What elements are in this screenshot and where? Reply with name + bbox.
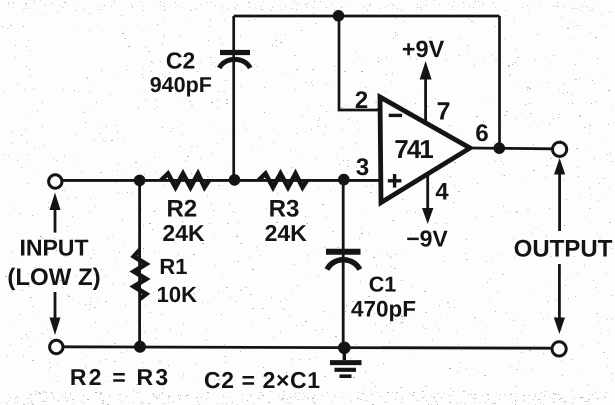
resistor R2 24K (161, 174, 209, 188)
terminal input bottom (50, 340, 63, 353)
terminal output top (553, 142, 567, 156)
resistor R3 24K (259, 174, 308, 188)
junction node: R3 C1 pin3 (338, 174, 350, 186)
wire feedback right vertical (498, 16, 501, 148)
label INPUT (21, 240, 88, 256)
terminal output bottom (552, 342, 566, 356)
capacitor C1 470pF (326, 252, 361, 270)
output top arrow (554, 158, 565, 231)
wire pin 2 branch (339, 16, 380, 110)
wire C1 branch vertical (342, 180, 345, 348)
label LOW Z (9, 268, 100, 290)
label R3 (270, 200, 298, 217)
pin 2 (356, 91, 368, 108)
label +9V (403, 41, 444, 58)
label R1 (161, 259, 187, 274)
label R2 (168, 200, 196, 217)
label 470pF (351, 301, 415, 321)
pin 6 (476, 124, 488, 141)
junction node: R2 R3 C2 (229, 174, 241, 186)
label C1 (370, 277, 396, 292)
junction node: feedback top (333, 10, 345, 22)
formula C2 = 2xC1 (205, 372, 320, 388)
label 24K of R2 (163, 225, 204, 241)
op-amp value 741 (395, 140, 433, 158)
input top arrow (50, 193, 61, 233)
junction node: bottom R1 (134, 341, 146, 353)
pin 3 (356, 158, 368, 175)
resistor R1 10K (134, 250, 146, 299)
label 10K (158, 287, 197, 303)
label OUTPUT (515, 240, 612, 257)
capacitor C2 940pF (219, 53, 250, 69)
wire C2 branch vertical (232, 16, 235, 180)
junction node: bottom C1 ground (338, 342, 351, 355)
terminal input top (49, 175, 62, 188)
wire bottom rail (63, 347, 553, 348)
pin 4 (436, 183, 449, 200)
wire top feedback horizontal (234, 15, 500, 18)
label 24K of R3 (265, 225, 306, 241)
input bottom arrow (50, 292, 61, 335)
op-amp non-inverting input plus (388, 174, 402, 188)
junction node: output pin6 (494, 142, 506, 154)
pin 7 (438, 102, 450, 119)
pin 4 -9V supply arrow (422, 174, 433, 224)
label -9V (407, 230, 447, 246)
ground (330, 348, 362, 376)
label 940pF (151, 77, 212, 97)
formula R2 = R3 (71, 369, 167, 385)
junction node: input R1 R2 (134, 175, 146, 187)
pin 7 +9V supply arrow (420, 61, 432, 123)
op-amp inverting input minus (389, 114, 402, 117)
label C2 (167, 52, 195, 68)
output bottom arrow (554, 264, 565, 334)
wire R1 branch vertical (138, 180, 141, 347)
wire middle input row (61, 179, 380, 182)
op-amp U1 741 triangle (380, 97, 470, 203)
wire op-amp output (469, 147, 553, 151)
